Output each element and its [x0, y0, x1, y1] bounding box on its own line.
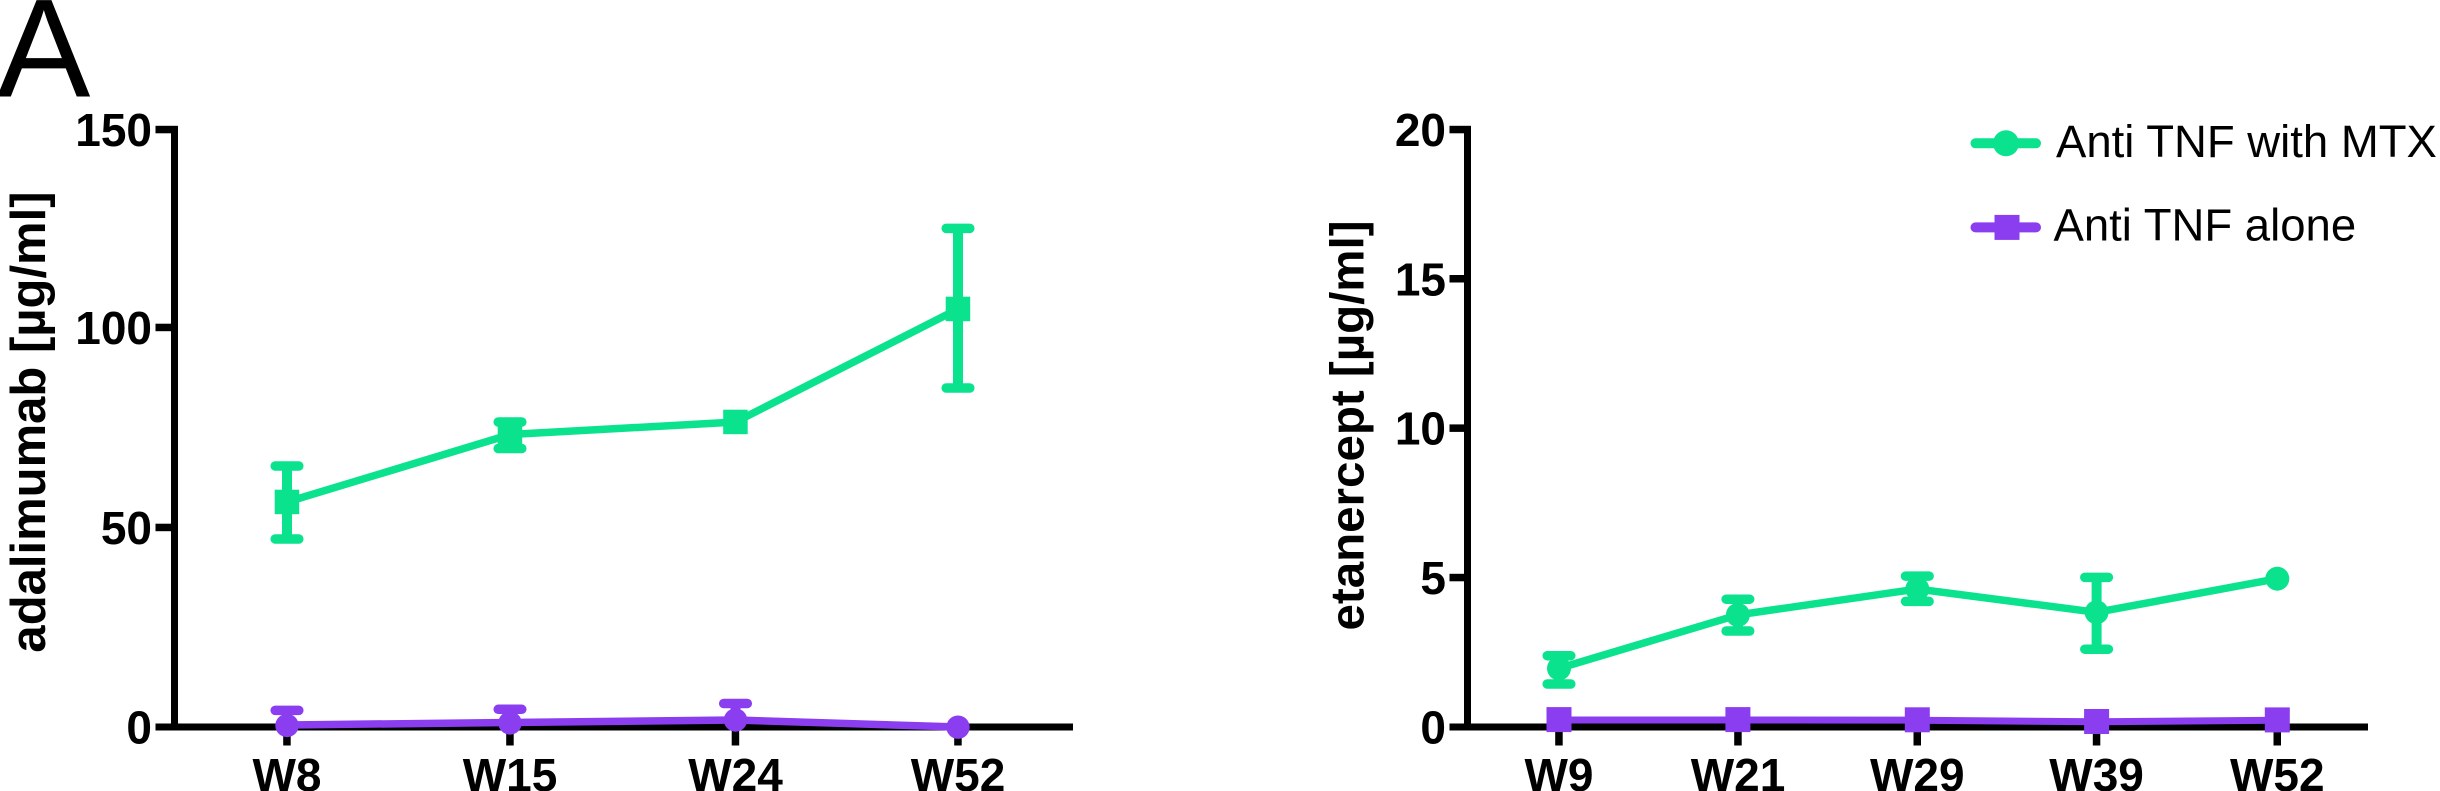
purple W24 circle marker [724, 708, 747, 731]
left chart purple series (Anti TNF alone) [275, 704, 970, 739]
svg-text:50: 50 [101, 502, 152, 554]
left chart x-tick W52 [954, 731, 962, 746]
green W39 error cap bottom [2085, 644, 2109, 654]
svg-text:0: 0 [1420, 702, 1446, 754]
purple W8 error whisker [282, 710, 292, 725]
purple W9 square marker [1547, 707, 1572, 732]
svg-text:W29: W29 [1870, 749, 1965, 791]
green W9 error cap bottom [1547, 679, 1571, 689]
svg-text:0: 0 [126, 702, 152, 754]
svg-text:100: 100 [75, 302, 152, 354]
green W8 error cap bottom [275, 534, 299, 544]
left chart x-tick W15 [506, 731, 514, 746]
left chart x-tick W24 [732, 731, 740, 746]
legend green circle marker [1993, 130, 2019, 156]
green W8 error whisker [282, 466, 292, 539]
left chart green series (Anti TNF with MTX) [275, 228, 971, 539]
purple W15 error cap top [498, 705, 522, 715]
green W52 error cap bottom [946, 383, 970, 393]
purple connecting line right [1559, 720, 2277, 722]
right chart x-tick W39 [2093, 731, 2101, 746]
left chart y-tick 50 [156, 524, 172, 532]
left chart y-tick 100 [156, 324, 172, 332]
green W52 error whisker [953, 228, 963, 388]
purple W21 square marker [1725, 707, 1750, 732]
green W8 square marker [275, 490, 300, 515]
green W29 circle marker [1905, 577, 1929, 601]
green W39 error whisker [2092, 577, 2102, 649]
green connecting line right [1559, 579, 2277, 669]
left chart y-axis line [171, 126, 178, 731]
green W21 circle marker [1726, 603, 1750, 627]
green W9 circle marker [1547, 656, 1571, 680]
svg-text:W52: W52 [911, 749, 1006, 791]
right chart green series (Anti TNF with MTX) [1547, 567, 2289, 684]
green W52 error cap top [946, 224, 970, 234]
svg-text:Anti TNF alone: Anti TNF alone [2054, 200, 2357, 251]
purple W24 error whisker [731, 704, 741, 721]
right chart y-tick 15 [1450, 275, 1465, 283]
left chart x-tick W8 [283, 731, 291, 746]
purple W8 error cap top [275, 706, 299, 716]
purple W24 error cap top [724, 699, 748, 709]
green W24 square marker [723, 410, 748, 435]
green W39 error cap top [2085, 573, 2109, 583]
green W52 square marker [946, 297, 971, 322]
svg-text:Anti TNF with MTX: Anti TNF with MTX [2056, 116, 2437, 167]
left chart x-axis line [156, 724, 1074, 731]
green W21 error cap top [1726, 594, 1750, 604]
right chart y-tick 20 [1450, 126, 1465, 134]
green W8 error cap top [275, 461, 299, 471]
purple W39 square marker [2084, 709, 2109, 734]
svg-text:5: 5 [1420, 552, 1446, 604]
right chart y-tick 5 [1450, 574, 1465, 582]
left chart y-tick 150 [156, 126, 172, 134]
purple W52 circle marker [946, 716, 969, 739]
purple connecting line left [287, 720, 958, 727]
svg-text:etanercept [µg/ml]: etanercept [µg/ml] [1322, 220, 1375, 630]
green W29 error whisker [1912, 576, 1922, 601]
green W39 circle marker [2085, 600, 2109, 624]
svg-text:W15: W15 [463, 749, 558, 791]
purple W52 square marker right [2265, 707, 2290, 732]
purple W15 error whisker [505, 709, 515, 723]
green W21 error cap bottom [1726, 626, 1750, 636]
svg-text:W21: W21 [1691, 749, 1786, 791]
right chart x-tick W9 [1555, 731, 1563, 746]
right chart y-tick 10 [1450, 424, 1465, 432]
legend purple square marker [1995, 215, 2020, 240]
green W21 error whisker [1733, 599, 1743, 631]
right chart x-tick W29 [1914, 731, 1922, 746]
purple W29 square marker [1905, 707, 1930, 732]
green connecting line left [287, 309, 958, 502]
svg-text:W8: W8 [253, 749, 322, 791]
green W9 error cap top [1547, 651, 1571, 661]
svg-text:20: 20 [1395, 104, 1446, 156]
green W29 error cap bottom [1906, 597, 1930, 607]
svg-text:adalimumab [µg/ml]: adalimumab [µg/ml] [2, 191, 56, 652]
legend purple line [1976, 222, 2037, 232]
svg-text:10: 10 [1395, 403, 1446, 455]
svg-text:W52: W52 [2230, 749, 2325, 791]
right chart x-tick W21 [1734, 731, 1742, 746]
green W15 error cap top [498, 417, 522, 427]
svg-text:W39: W39 [2049, 749, 2144, 791]
svg-text:W9: W9 [1525, 749, 1594, 791]
green W15 error whisker [505, 422, 515, 449]
legend green line [1976, 138, 2037, 148]
green W9 error whisker [1554, 656, 1564, 684]
purple W15 circle marker [498, 711, 521, 734]
purple W8 circle marker [275, 714, 298, 737]
green W29 error cap top [1906, 571, 1930, 581]
right chart purple series (Anti TNF alone) [1547, 707, 2290, 734]
right chart x-tick W52 [2274, 731, 2282, 746]
green W52 circle marker right [2265, 567, 2289, 591]
right chart x-axis line [1450, 724, 2369, 731]
right chart y-axis line [1464, 126, 1471, 731]
svg-text:15: 15 [1395, 253, 1446, 305]
svg-text:W24: W24 [688, 749, 783, 791]
green W15 error cap bottom [498, 444, 522, 454]
green W15 square marker [498, 422, 523, 447]
svg-text:150: 150 [75, 104, 152, 156]
